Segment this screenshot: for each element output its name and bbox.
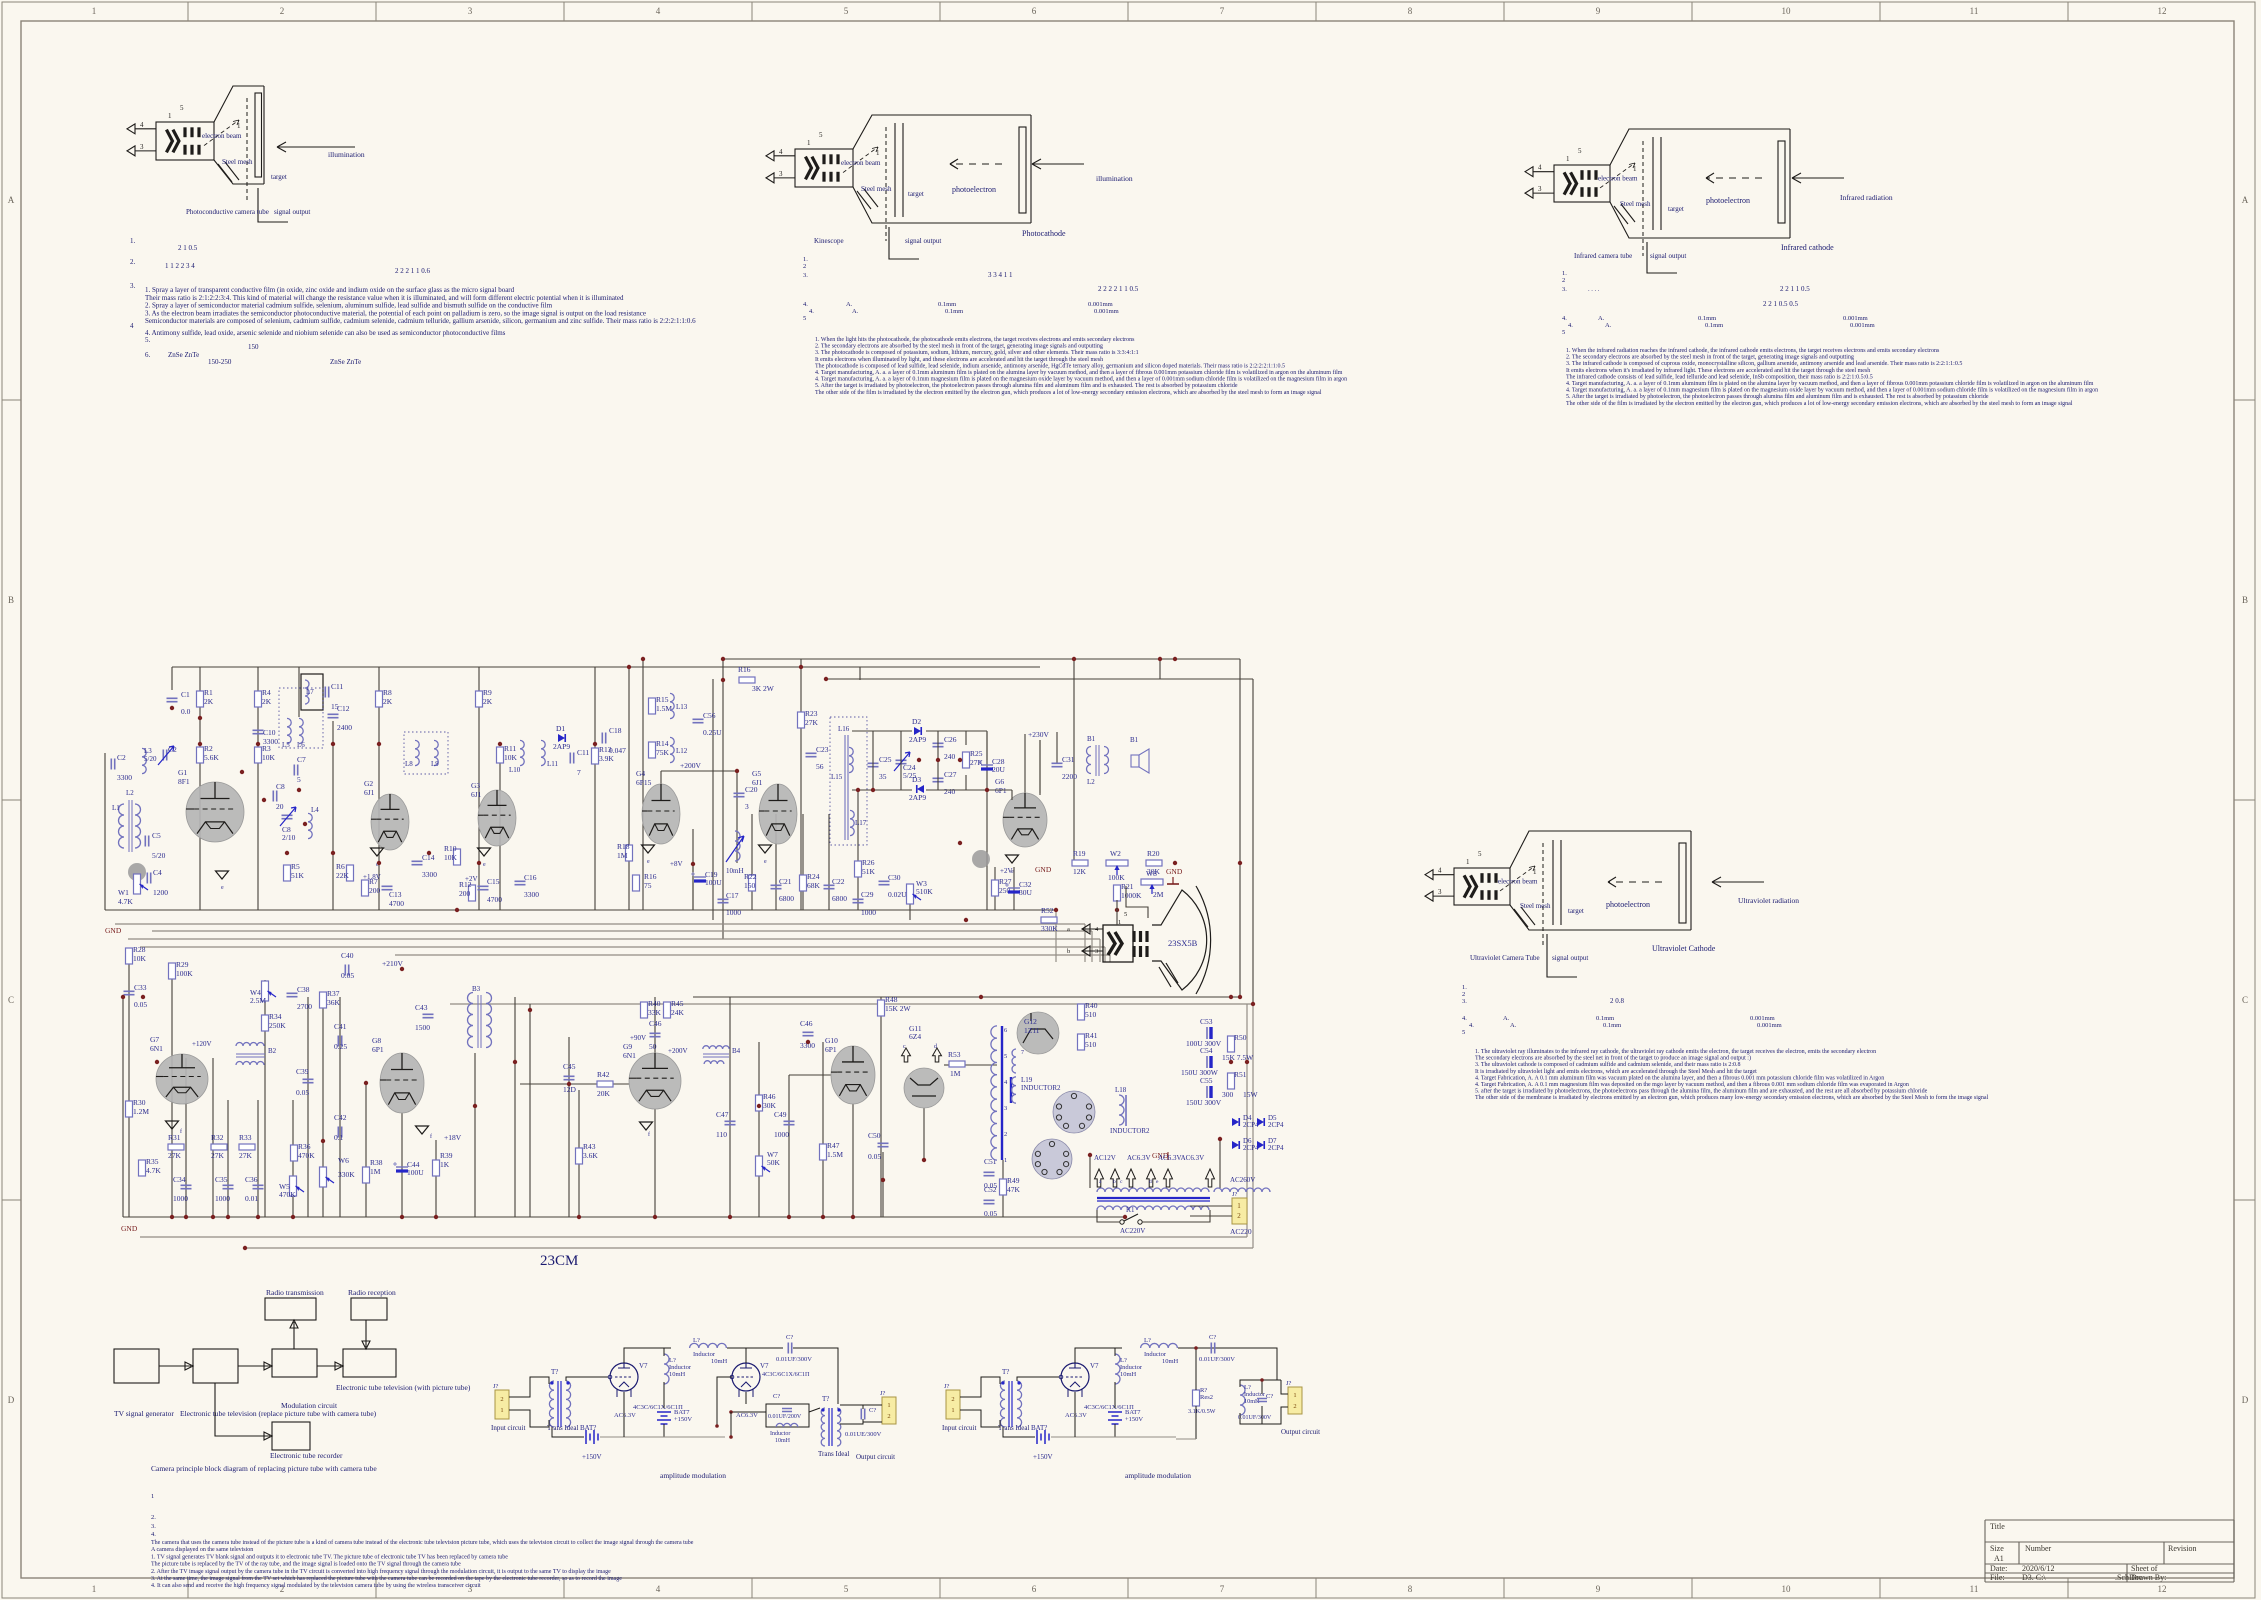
svg-text:27K: 27K [805,718,819,727]
wire [822,1042,824,1217]
svg-text:1: 1 [1466,858,1470,866]
svg-text:0.0: 0.0 [181,707,191,716]
svg-text:+18V: +18V [444,1133,462,1142]
resistor R5 [284,865,291,881]
wire [401,1113,403,1217]
svg-text:510: 510 [1085,1010,1097,1019]
target plate [255,93,262,177]
wire [729,997,731,1217]
svg-text:20: 20 [276,802,284,811]
tube G3 6J1 [478,790,516,846]
svg-text:8: 8 [1408,6,1413,16]
junction [198,742,202,746]
wire bus to CRT 2 [128,938,1100,940]
svg-text:C13: C13 [389,890,402,899]
AM2 output wires [1219,1348,1277,1387]
svg-text:1: 1 [92,1584,97,1594]
svg-text:C25: C25 [879,755,892,764]
svg-text:30U: 30U [1019,888,1033,897]
svg-text:5/20: 5/20 [152,851,166,860]
svg-text:1: 1 [500,1407,503,1414]
wire [852,1104,854,1217]
capacitor C4 [147,873,150,884]
svg-text:Ultraviolet radiation: Ultraviolet radiation [1738,896,1799,905]
svg-text:1.: 1. [803,256,808,263]
capacitor C18 [602,733,605,744]
svg-text:5.: 5. [145,336,151,344]
wire [1252,679,1254,1004]
svg-text:L1: L1 [112,804,120,812]
wire [857,790,859,910]
svg-text:C?: C? [773,1393,780,1400]
junction [979,995,983,999]
svg-text:R40: R40 [648,999,661,1008]
resistor R32 [211,1144,227,1150]
svg-text:L15: L15 [831,773,843,781]
svg-text:3300: 3300 [263,737,278,746]
wire bus to CRT 3 [140,946,1105,948]
svg-text:Electronic tube television (wi: Electronic tube television (with picture… [336,1383,471,1392]
svg-text:File:: File: [1990,1573,2005,1582]
svg-text:10K: 10K [444,853,458,862]
svg-text:G12: G12 [1024,1017,1037,1026]
resistor R16 [739,677,755,683]
svg-text:2/10: 2/10 [282,833,296,842]
svg-text:9: 9 [1596,1584,1601,1594]
svg-text:C55: C55 [1200,1076,1213,1085]
svg-text:1. Spray a layer of transparen: 1. Spray a layer of transparent conducti… [145,286,515,294]
svg-text:C2: C2 [117,753,126,762]
svg-text:510K: 510K [916,887,933,896]
svg-text:1M: 1M [617,851,628,860]
AM1 output transformer [821,1408,825,1446]
wire bottom GND rail [123,1216,1125,1218]
wire C45-R42-G9 grid [520,1083,630,1085]
wire [1002,1160,1004,1217]
svg-text:L12: L12 [676,747,688,755]
junction [627,665,631,669]
capacitor C21 [771,885,782,888]
svg-text:C40: C40 [341,951,354,960]
wire [882,1152,884,1217]
AM1 second grid wire [717,1377,732,1426]
svg-text:R8: R8 [383,688,392,697]
svg-text:C?: C? [786,1334,793,1341]
capacitor C33 [124,991,135,994]
svg-text:7: 7 [1220,6,1225,16]
AM2 output connector [1288,1387,1302,1414]
svg-text:A.: A. [1605,322,1612,329]
svg-text:2 0.8: 2 0.8 [1610,997,1625,1005]
wire left GND drop [122,997,124,1217]
AM shunt inductor [1115,1354,1120,1384]
transformer B2 [236,1043,264,1047]
svg-text:150U 300V: 150U 300V [1186,1098,1222,1107]
svg-text:f: f [648,1131,650,1138]
svg-text:R5: R5 [291,862,300,871]
svg-text:0.25U: 0.25U [703,728,722,737]
svg-text:G8: G8 [372,1036,381,1045]
capacitor C53 [1206,1027,1208,1039]
svg-text:4: 4 [656,6,661,16]
potentiometer W1 [134,874,141,894]
junction [1173,657,1177,661]
resistor R43 [576,1148,583,1164]
tube G9 6N1 [629,1053,681,1109]
svg-text:Photocathode: Photocathode [1022,229,1066,238]
hatch marks [857,189,878,209]
inductor L19 [1010,1077,1012,1103]
svg-text:2.: 2. [130,258,136,266]
resistor R9 [476,691,483,707]
svg-text:5: 5 [1478,850,1482,858]
svg-text:A: A [8,195,15,205]
camera tube body [1554,165,1610,202]
svg-text:4: 4 [1438,867,1442,875]
svg-text:4: 4 [656,1584,661,1594]
svg-text:3. At the same time, the image: 3. At the same time, the image signal fr… [151,1575,622,1582]
wire [828,814,830,910]
AM1 output cap [861,1409,864,1420]
svg-text:5. After the target is irradia: 5. After the target is irradiated by pho… [815,382,1238,389]
junction [528,1008,532,1012]
svg-text:D3. C:\: D3. C:\ [2022,1573,2046,1582]
svg-text:12D: 12D [563,1085,577,1094]
diode D4 2CP4 [1232,1118,1239,1126]
svg-text:illumination: illumination [1096,174,1133,183]
capacitor C7 [294,765,297,776]
svg-text:L?: L? [693,1337,700,1344]
svg-text:0.05: 0.05 [296,1088,309,1097]
svg-text:3. As the electron beam irradi: 3. As the electron beam irradiates the s… [145,309,646,317]
svg-text:Res2: Res2 [1200,1394,1213,1401]
junction [170,706,174,710]
ground under G2 [371,848,384,856]
svg-text:1200: 1200 [153,888,168,897]
hatch marks [218,162,239,182]
svg-text:2AP9: 2AP9 [909,793,926,802]
wire top bus C [826,678,1253,680]
svg-text:2: 2 [803,263,806,270]
svg-text:100K: 100K [1108,873,1125,882]
svg-text:Number: Number [2025,1544,2052,1553]
resistor R7 [362,880,369,896]
svg-text:2 2 2 2 1 1 0.5: 2 2 2 2 1 1 0.5 [1098,285,1139,293]
svg-text:4. Target manufacturing, A. a.: 4. Target manufacturing, A. a. a layer o… [815,369,1343,376]
svg-text:T?: T? [822,1395,829,1403]
svg-text:100K: 100K [176,969,193,978]
svg-text:signal output: signal output [274,208,310,216]
svg-text:R6: R6 [336,862,345,871]
AM series inductor L [690,1343,727,1348]
capacitor C34 [181,1185,192,1188]
svg-text:12: 12 [2158,1584,2167,1594]
capacitor C56 [693,719,704,722]
svg-text:Photoconductive camera tube: Photoconductive camera tube [186,208,269,216]
svg-text:33K: 33K [648,1008,662,1017]
resistor R51 [1228,1073,1235,1089]
svg-text:470K: 470K [279,1190,296,1199]
svg-text:. . . .: . . . . [1588,286,1600,293]
capacitor C45 [564,1076,575,1079]
svg-text:5. after the target is irradia: 5. after the target is irradiated by pho… [1475,1088,1928,1095]
svg-text:0.1: 0.1 [334,1133,344,1142]
block radio transmission [265,1298,316,1320]
svg-text:0.01UE/300V: 0.01UE/300V [845,1431,882,1438]
camera tube body [795,149,853,187]
svg-text:C43: C43 [415,1003,428,1012]
junction [856,788,860,792]
svg-text:3.: 3. [1462,998,1467,1005]
svg-text:4.: 4. [1562,315,1567,322]
svg-text:R48: R48 [885,995,898,1004]
svg-text:electron beam: electron beam [1498,878,1538,886]
svg-text:3.9K: 3.9K [599,754,614,763]
svg-text:Ultraviolet Camera Tube: Ultraviolet Camera Tube [1470,954,1540,962]
junction [513,1060,517,1064]
svg-text:Infrared radiation: Infrared radiation [1840,193,1893,202]
wire [775,814,777,910]
wire [660,771,662,784]
variable capacitor C2 [163,750,166,761]
svg-text:C35: C35 [215,1175,228,1184]
svg-text:1000K: 1000K [1121,891,1142,900]
svg-text:3: 3 [1438,888,1442,896]
svg-text:d: d [934,1044,937,1050]
resistor R4 [255,691,262,707]
svg-text:V7: V7 [1090,1362,1099,1370]
svg-text:4700: 4700 [389,899,404,908]
svg-text:4. Target manufacturing, A. a.: 4. Target manufacturing, A. a. a layer o… [1566,380,2094,387]
svg-text:+150V: +150V [582,1453,602,1461]
junction [1245,1060,1249,1064]
junction [721,678,725,682]
svg-text:L3: L3 [144,747,152,755]
svg-text:22K: 22K [336,871,350,880]
svg-text:C5: C5 [152,831,161,840]
svg-text:ZnSe ZnTe: ZnSe ZnTe [330,358,361,366]
illumination arrow [1712,877,1764,887]
svg-text:G5: G5 [752,769,761,778]
svg-text:150: 150 [744,881,756,890]
svg-text:2M: 2M [1153,890,1164,899]
svg-text:4.: 4. [1568,322,1573,329]
tube socket X1 [1053,1091,1095,1133]
svg-text:27K: 27K [211,1151,225,1160]
svg-text:3: 3 [779,170,783,178]
wire G6 plate to top [1039,740,1041,795]
junction [1238,861,1242,865]
coupling dashed box L15-L17 [830,717,867,845]
svg-text:d: d [1149,1179,1152,1185]
svg-text:Input circuit: Input circuit [491,1424,525,1432]
wire [322,992,324,1217]
svg-text:Input circuit: Input circuit [942,1424,976,1432]
wire CRT staircase [1099,939,1101,962]
wire CRT staircase [1084,924,1086,962]
svg-text:3. The photocathode is compose: 3. The photocathode is composed of potas… [815,349,1139,356]
junction [477,861,481,865]
flyback aux winding pin7 [1012,1049,1016,1073]
tube G1 8F1 [186,782,244,842]
svg-text:+210V: +210V [382,959,403,968]
junction [721,657,725,661]
svg-text:11: 11 [1970,1584,1979,1594]
wire [478,667,480,910]
svg-text:R39: R39 [440,1151,453,1160]
svg-text:R4: R4 [262,688,271,697]
svg-text:15K 7.5W: 15K 7.5W [1222,1053,1254,1062]
svg-text:51K: 51K [862,867,876,876]
svg-text:Revision: Revision [2168,1544,2196,1553]
svg-text:0.01UF/300V: 0.01UF/300V [1199,1356,1235,1363]
svg-text:target: target [271,173,287,181]
svg-text:D: D [8,1395,15,1405]
svg-text:D: D [2242,1395,2249,1405]
svg-text:3.: 3. [803,272,808,279]
capacitor C15 [478,886,489,889]
svg-text:4: 4 [1538,164,1542,172]
svg-text:1: 1 [807,139,811,147]
svg-text:C16: C16 [524,873,537,882]
gun lead arrows [135,128,156,130]
junction [691,862,695,866]
detector network wires [852,730,912,732]
svg-text:R16: R16 [644,872,657,881]
potentiometer W7 [756,1156,763,1176]
svg-text:W1: W1 [118,888,129,897]
svg-text:510: 510 [1085,1040,1097,1049]
svg-text:35: 35 [879,772,887,781]
ground under G5 [759,845,772,853]
resistor R20 [1146,860,1162,866]
svg-text:R30: R30 [133,1098,146,1107]
svg-text:3.: 3. [151,1523,156,1530]
svg-text:C47: C47 [716,1110,729,1119]
svg-text:10mH: 10mH [669,1371,686,1378]
title block [1985,1520,2234,1582]
signal output wire [889,227,919,259]
svg-text:0.05: 0.05 [984,1209,997,1218]
junction [243,1246,247,1250]
capacitor C20 [734,793,745,796]
svg-text:200: 200 [459,889,471,898]
svg-text:2 1 0.5: 2 1 0.5 [178,244,198,252]
AM battery BAT horizontal [586,1430,598,1444]
resistor R25 [963,752,970,768]
capacitor C2 [111,759,114,770]
svg-text:47K: 47K [1007,1185,1021,1194]
AM1 output wires [840,1405,863,1409]
svg-text:470K: 470K [298,1151,315,1160]
capacitor C12 [328,714,339,717]
capacitor C10 [253,730,264,733]
wire [435,1140,437,1217]
svg-text:C12: C12 [337,704,350,713]
svg-text:C42: C42 [334,1113,347,1122]
svg-text:A.: A. [1503,1015,1510,1022]
resistor R3 [255,747,262,763]
wire bus to CRT 1 [115,923,1085,925]
svg-text:15: 15 [331,702,339,711]
svg-text:23SX5B: 23SX5B [1168,938,1198,948]
svg-text:AC12V: AC12V [1094,1154,1116,1162]
svg-text:1.: 1. [130,237,136,245]
svg-text:4: 4 [779,148,783,156]
wire [298,667,300,717]
svg-text:6: 6 [1032,6,1037,16]
capacitor C50 [878,1143,889,1146]
svg-text:5: 5 [844,1584,849,1594]
junction [735,769,739,773]
svg-text:1M: 1M [370,1167,381,1176]
junction [434,1215,438,1219]
camera tube body [1454,868,1510,905]
electron beam arrow [1500,866,1535,891]
inductor L5 [287,718,291,743]
svg-text:b: b [1067,948,1070,955]
svg-text:6J1: 6J1 [364,788,375,797]
svg-text:51K: 51K [291,871,305,880]
svg-text:6P1: 6P1 [825,1045,837,1054]
svg-text:0.02U: 0.02U [888,890,907,899]
svg-text:amplitude modulation: amplitude modulation [1125,1471,1191,1480]
svg-text:C39: C39 [296,1067,309,1076]
svg-text:R15: R15 [656,695,669,704]
svg-text:10: 10 [1782,1584,1792,1594]
capacitor C25 [868,763,879,766]
svg-text:1: 1 [151,1493,154,1500]
CRT lead arrows [1082,924,1090,934]
svg-text:6J1: 6J1 [471,790,482,799]
svg-text:20U: 20U [992,765,1006,774]
capacitor C38 [287,993,298,996]
svg-text:C?: C? [1209,1334,1216,1341]
wire [499,748,501,910]
svg-text:5: 5 [803,315,806,322]
infrared inner plates [1652,137,1654,230]
resistor R42 [597,1081,613,1087]
svg-text:C54: C54 [1200,1046,1213,1055]
svg-text:3. The infrared cathode is com: 3. The infrared cathode is composed of c… [1566,360,1962,367]
resistor R36 [291,1145,298,1161]
capacitor C44 [396,1166,408,1168]
resistor R26 [855,861,862,877]
svg-text:L?: L? [669,1357,676,1364]
svg-text:R45: R45 [671,999,684,1008]
svg-text:The picture tube is replaced b: The picture tube is replaced by the TV o… [151,1561,461,1568]
inductor L9 [434,740,438,765]
arrow radio rx->tv2 [362,1320,370,1349]
inductor L16 [849,747,853,772]
resistor R10 [454,849,461,865]
svg-text:0.001mm: 0.001mm [1843,315,1868,322]
svg-text:4.: 4. [803,301,808,308]
svg-text:+200V: +200V [668,1047,688,1055]
capacitor C11 [570,753,573,764]
svg-text:1.5M: 1.5M [827,1150,843,1159]
potentiometer W8 [1141,879,1163,885]
capacitor C47 [725,1121,736,1124]
resistor R11 [497,747,504,763]
variable capacitor C8 [282,815,293,818]
potentiometer W4 [262,981,269,1001]
svg-text:It emits electrons when illumi: It emits electrons when illuminated by l… [815,357,1103,363]
wire top bus A [172,666,1040,668]
svg-text:50: 50 [649,1042,657,1051]
capacitor C28 [981,764,993,766]
svg-text:6P1: 6P1 [372,1045,384,1054]
